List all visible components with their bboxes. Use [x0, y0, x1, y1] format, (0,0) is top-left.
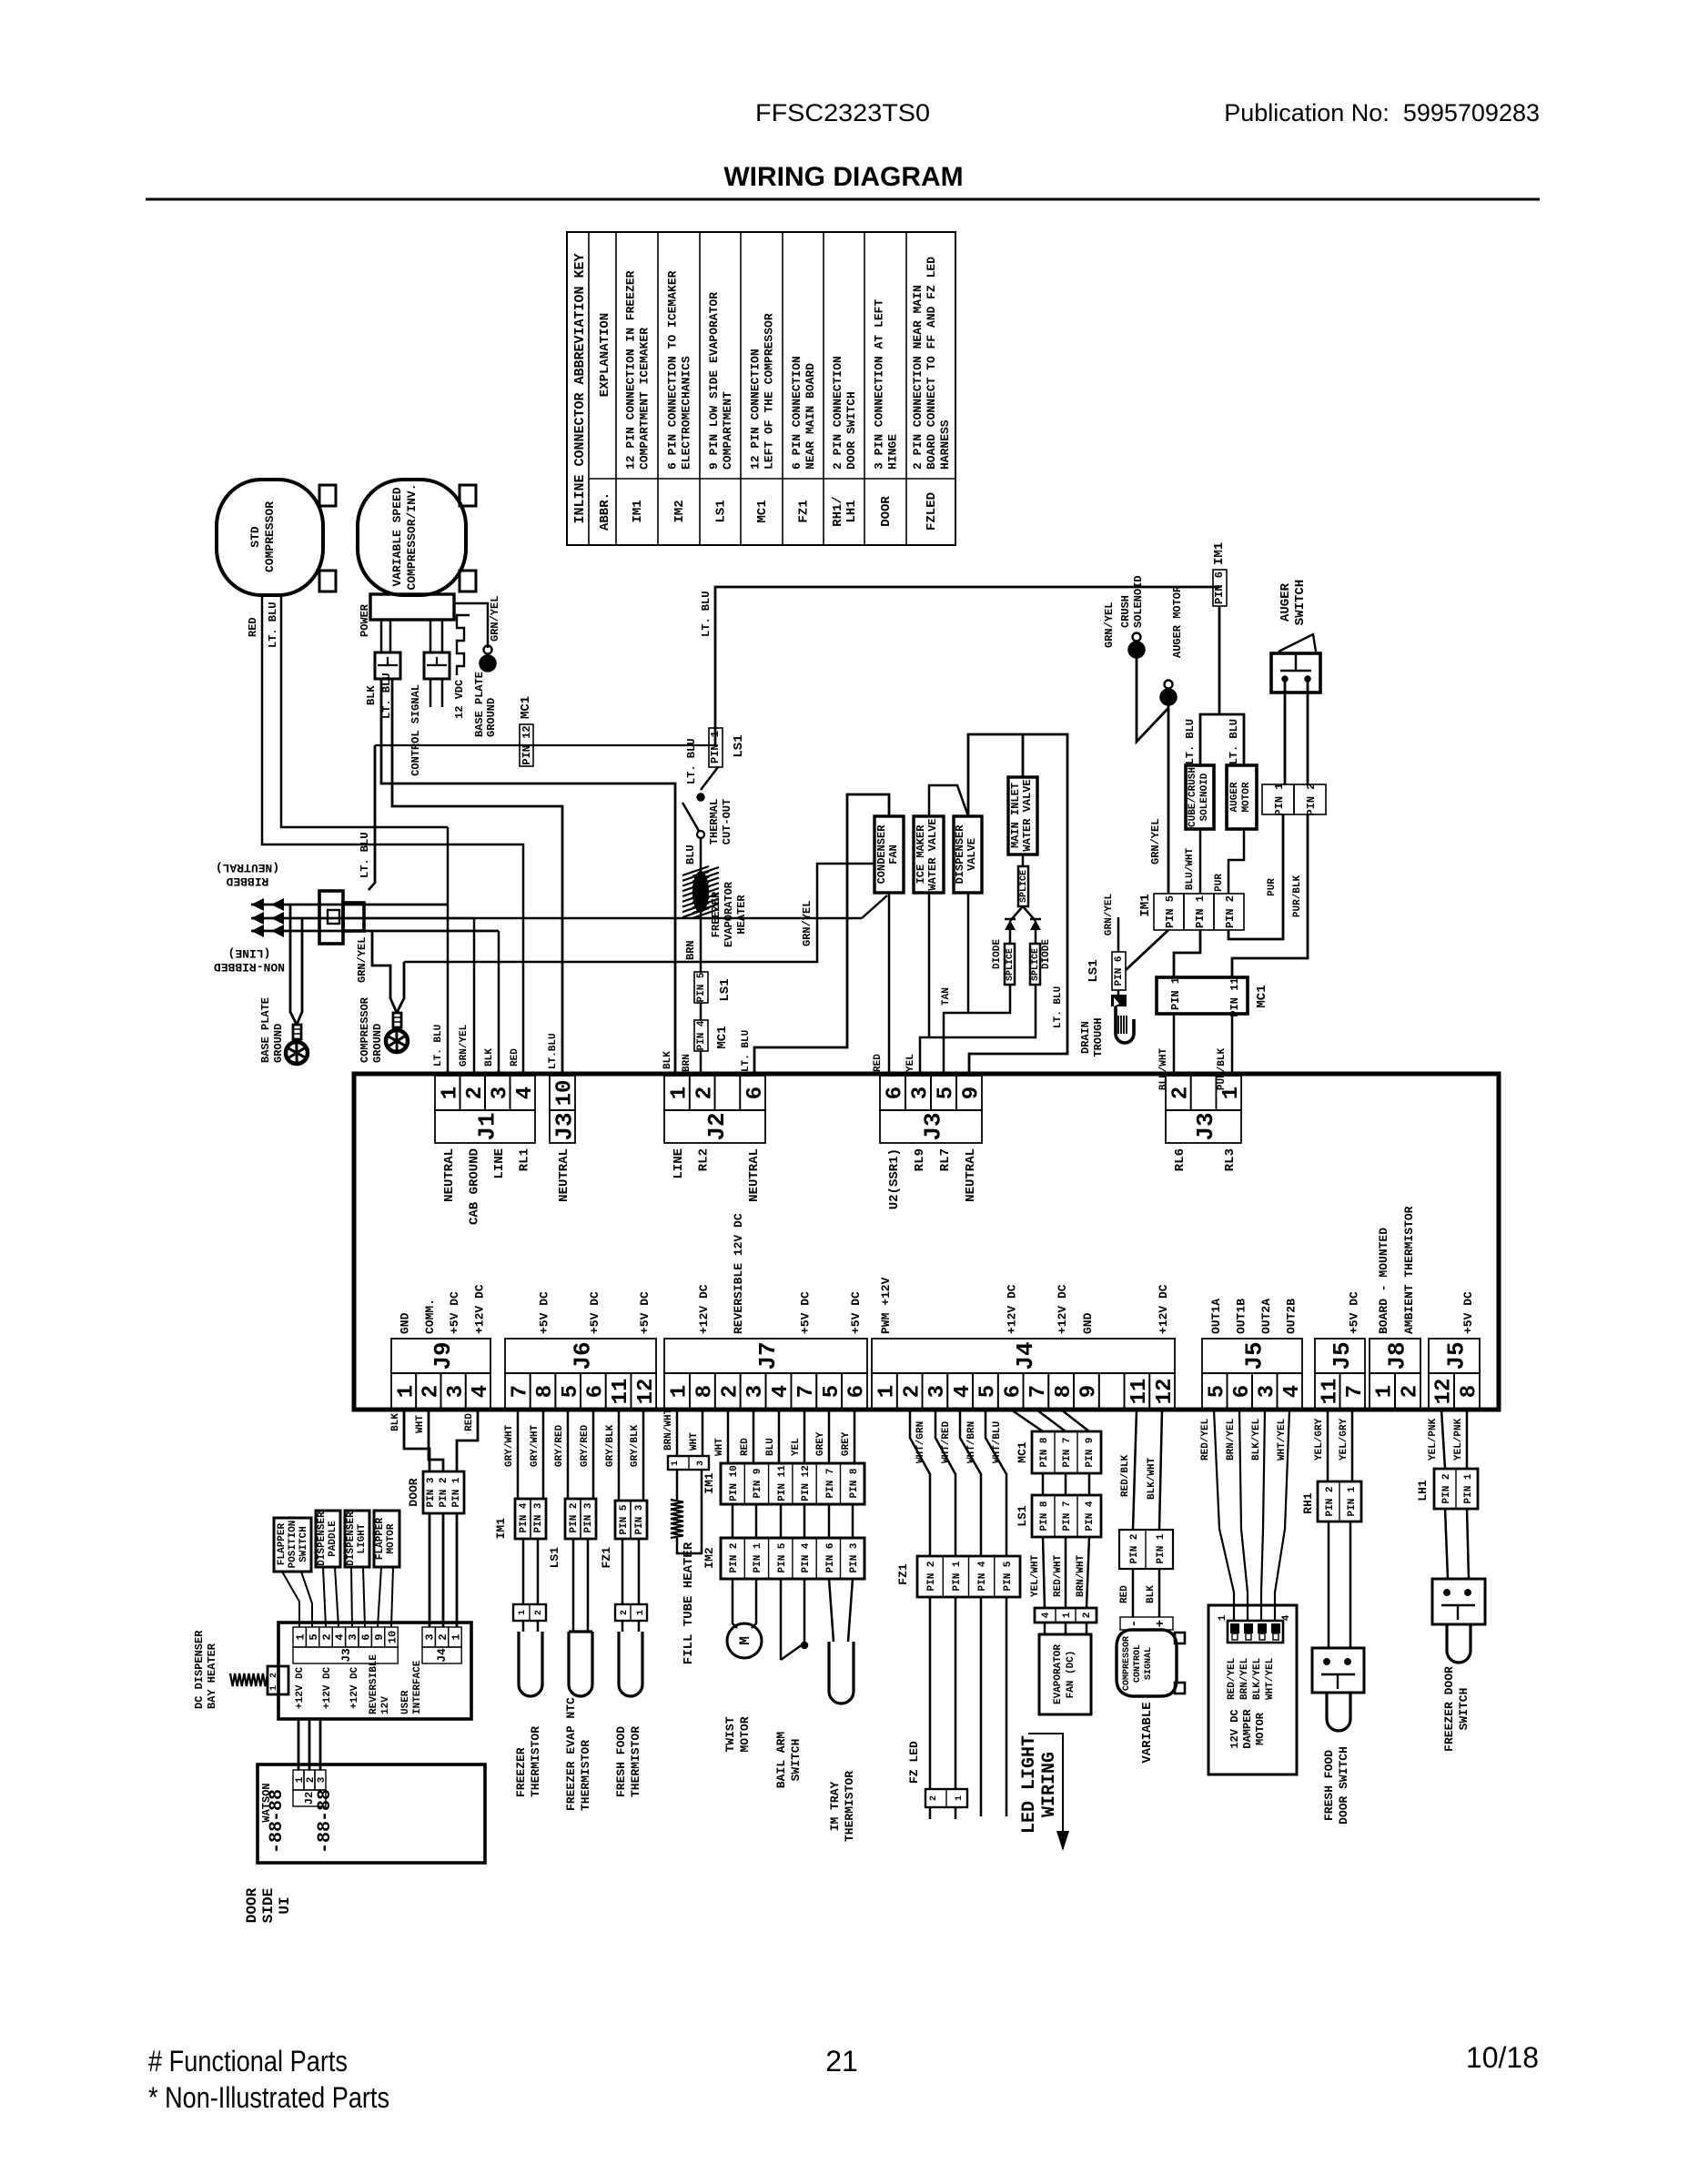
compressor control signal connector PIN2 PIN1	[1119, 1530, 1173, 1569]
svg-text:THERMISTOR: THERMISTOR	[629, 1726, 642, 1797]
freezer thermistor bulb	[522, 1621, 525, 1632]
svg-text:RED: RED	[740, 1438, 751, 1456]
svg-text:-88: -88	[267, 1821, 288, 1854]
svg-text:2: 2	[718, 1385, 743, 1398]
wires J4 to MC1 fan pins	[1011, 1410, 1043, 1431]
svg-text:BLK: BLK	[1146, 1585, 1157, 1603]
svg-text:DC DISPENSER: DC DISPENSER	[193, 1630, 206, 1709]
wire BLU/WHT solenoid to IM1 PIN1	[1199, 829, 1202, 894]
svg-text:BRN/WHT: BRN/WHT	[663, 1408, 674, 1451]
svg-text:FRESH FOOD: FRESH FOOD	[1322, 1750, 1336, 1821]
svg-text:YEL/PNK: YEL/PNK	[1453, 1418, 1464, 1461]
wire WHT J7-8	[702, 1410, 704, 1456]
freezer evap thermistor bulb	[572, 1539, 575, 1632]
wire neutral drop to J1-1	[447, 827, 450, 1076]
svg-text:NEUTRAL: NEUTRAL	[442, 1148, 457, 1202]
UI connector J3	[293, 1627, 306, 1647]
svg-text:VARIABLE: VARIABLE	[1140, 1702, 1155, 1763]
svg-text:PIN 1: PIN 1	[1194, 895, 1207, 928]
svg-text:TAN: TAN	[941, 987, 952, 1006]
svg-text:+12V DC: +12V DC	[1056, 1284, 1069, 1334]
svg-text:GRY/RED: GRY/RED	[554, 1424, 565, 1467]
svg-text:MC1: MC1	[1255, 985, 1269, 1007]
svg-text:8: 8	[533, 1385, 558, 1398]
svg-text:2: 2	[463, 1087, 488, 1099]
door side UI box	[258, 1764, 485, 1863]
wires RED BLK to compressor control	[1132, 1569, 1135, 1617]
compressor ground stems	[372, 931, 397, 1013]
plug ground prong wire	[251, 917, 474, 920]
svg-text:+12V DC: +12V DC	[697, 1284, 711, 1334]
svg-text:RED: RED	[1119, 1585, 1130, 1603]
variable speed compressor terminal blocks	[460, 485, 476, 506]
svg-text:GRY/BLK: GRY/BLK	[605, 1424, 616, 1467]
svg-text:PIN 1: PIN 1	[1273, 783, 1286, 815]
svg-text:PIN 6: PIN 6	[825, 1542, 836, 1572]
svg-text:DISPENSER: DISPENSER	[317, 1512, 328, 1566]
svg-text:FREEZER: FREEZER	[514, 1747, 528, 1797]
svg-text:WHT/GRN: WHT/GRN	[915, 1421, 926, 1463]
svg-text:PIN 7: PIN 7	[1062, 1437, 1073, 1467]
svg-text:-: -	[1127, 1620, 1142, 1627]
svg-text:OUT1A: OUT1A	[1209, 1299, 1223, 1334]
svg-text:GREY: GREY	[815, 1431, 826, 1456]
svg-text:USER: USER	[400, 1690, 411, 1714]
svg-text:LS1: LS1	[732, 734, 746, 757]
svg-text:RH1/: RH1/	[831, 496, 845, 527]
splice below main inlet valve	[1022, 854, 1025, 866]
svg-text:SOLENOID: SOLENOID	[1199, 773, 1210, 821]
svg-text:2: 2	[620, 1610, 630, 1615]
svg-text:INLINE CONNECTOR ABBREVIATION: INLINE CONNECTOR ABBREVIATION KEY	[572, 253, 588, 523]
svg-text:TWIST: TWIST	[723, 1716, 737, 1752]
svg-text:ABBR.: ABBR.	[598, 492, 612, 531]
dispenser paddle box	[316, 1511, 340, 1567]
crush solenoid ground terminal	[1133, 633, 1141, 642]
svg-text:J7: J7	[754, 1341, 782, 1370]
wire ground drop to J1-2	[473, 918, 476, 1076]
svg-text:WIRING DIAGRAM: WIRING DIAGRAM	[723, 162, 963, 192]
ice maker valve top wire	[929, 785, 968, 816]
svg-text:GRN/YEL: GRN/YEL	[489, 596, 501, 642]
thermal cut-out switch	[697, 794, 704, 801]
svg-text:PIN 9: PIN 9	[753, 1468, 763, 1498]
svg-text:EVAPORATOR: EVAPORATOR	[723, 881, 735, 947]
svg-text:1: 1	[668, 1087, 692, 1099]
svg-text:AUGER: AUGER	[1279, 582, 1293, 622]
svg-text:GND: GND	[1081, 1312, 1095, 1334]
svg-text:+5V DC: +5V DC	[1347, 1291, 1360, 1334]
wires FZ1 LED light harness	[980, 1597, 983, 1816]
svg-text:EVAPORATOR: EVAPORATOR	[1053, 1644, 1064, 1704]
connector J5 OUT	[1202, 1339, 1302, 1373]
svg-text:SWITCH: SWITCH	[298, 1526, 309, 1562]
IM tray thermistor	[829, 1579, 834, 1642]
svg-text:PIN 1: PIN 1	[451, 1477, 462, 1507]
svg-text:BRN/YEL: BRN/YEL	[1239, 1657, 1250, 1700]
auger motor box	[1227, 765, 1257, 829]
svg-text:-88: -88	[267, 1789, 288, 1822]
svg-text:FLAPPER: FLAPPER	[375, 1518, 386, 1561]
inverter control pin leads	[430, 620, 432, 652]
wire PUR IM1 PIN2 to auger switch PIN1	[1228, 814, 1283, 939]
svg-text:LT. BLU: LT. BLU	[359, 833, 371, 878]
svg-text:4: 4	[334, 1633, 347, 1640]
svg-text:1: 1	[636, 1610, 646, 1615]
svg-text:1: 1	[450, 1633, 462, 1640]
CONTROL SIGNAL connector	[424, 652, 450, 679]
svg-text:5: 5	[935, 1087, 959, 1099]
svg-text:YEL: YEL	[905, 1054, 916, 1072]
dispenser light box	[345, 1511, 369, 1567]
svg-text:OUT2B: OUT2B	[1284, 1299, 1298, 1334]
svg-text:BLK/WHT: BLK/WHT	[1147, 1457, 1157, 1500]
svg-text:BASE PLATE: BASE PLATE	[259, 997, 272, 1063]
svg-text:PIN 1: PIN 1	[709, 731, 722, 763]
svg-text:YEL/GRY: YEL/GRY	[1339, 1418, 1349, 1461]
svg-text:5: 5	[1205, 1385, 1229, 1398]
svg-text:COMPRESSOR: COMPRESSOR	[1122, 1636, 1132, 1691]
svg-text:LT. BLU: LT. BLU	[741, 1030, 752, 1072]
svg-text:3: 3	[696, 1461, 706, 1466]
svg-text:BLU: BLU	[765, 1438, 776, 1456]
svg-text:BRN/WHT: BRN/WHT	[1076, 1554, 1087, 1597]
svg-text:LS1: LS1	[1087, 959, 1101, 982]
svg-text:PIN 4: PIN 4	[696, 1020, 707, 1050]
svg-text:9: 9	[1077, 1385, 1102, 1398]
svg-text:RL6: RL6	[1173, 1148, 1188, 1171]
svg-text:COMPARTMENT ICEMAKER: COMPARTMENT ICEMAKER	[638, 328, 652, 470]
svg-text:BRN: BRN	[682, 1054, 692, 1072]
svg-text:WHT/RED: WHT/RED	[941, 1421, 952, 1463]
svg-text:J3: J3	[551, 1112, 578, 1140]
connector J5 (11 7)	[1315, 1339, 1365, 1373]
connector J6	[505, 1339, 656, 1373]
svg-text:ELECTROMECHANICS: ELECTROMECHANICS	[680, 356, 693, 470]
svg-text:4: 4	[769, 1385, 793, 1398]
svg-text:NON-RIBBED: NON-RIBBED	[214, 960, 285, 974]
freezer thermistor leads	[522, 1539, 525, 1604]
svg-text:PADDLE: PADDLE	[328, 1521, 339, 1557]
svg-text:+5V DC: +5V DC	[638, 1291, 652, 1334]
svg-text:LT. BLU: LT. BLU	[1184, 719, 1197, 764]
flapper motor box	[374, 1511, 399, 1567]
condenser fan box	[874, 816, 904, 893]
svg-text:BLU/WHT: BLU/WHT	[1185, 848, 1196, 891]
wire LT. BLU LS1 PIN1 to thermal cutout	[701, 767, 718, 790]
svg-text:VALVE: VALVE	[965, 838, 978, 871]
svg-text:J3: J3	[339, 1648, 353, 1663]
svg-text:DOOR: DOOR	[879, 496, 894, 527]
svg-text:12V: 12V	[380, 1696, 391, 1714]
connector J3 (SSR)	[880, 1076, 905, 1110]
svg-text:+5V DC: +5V DC	[588, 1291, 601, 1334]
svg-text:BOARD CONNECT TO FF AND FZ LED: BOARD CONNECT TO FF AND FZ LED	[925, 257, 938, 470]
control signal stubs	[430, 679, 432, 707]
svg-text:WHT: WHT	[714, 1438, 725, 1456]
neutral bus rectangle right	[968, 734, 1067, 1076]
wire GRN/YEL plug ground bus to fan	[862, 895, 887, 918]
svg-text:EXPLANATION: EXPLANATION	[598, 313, 612, 397]
svg-text:RL3: RL3	[1223, 1148, 1238, 1171]
svg-text:FRESH FOOD: FRESH FOOD	[614, 1726, 628, 1797]
svg-text:BLK: BLK	[662, 1051, 673, 1069]
svg-text:STD: STD	[248, 526, 262, 548]
svg-text:LT. BLU: LT. BLU	[1228, 719, 1240, 764]
svg-text:FLAPPER: FLAPPER	[277, 1523, 288, 1566]
bail arm switch	[780, 1579, 783, 1660]
auger motor ground terminal	[1165, 681, 1173, 689]
svg-text:LIGHT: LIGHT	[357, 1523, 368, 1553]
svg-text:6 PIN CONNECTION: 6 PIN CONNECTION	[790, 356, 804, 470]
svg-text:1: 1	[438, 1087, 462, 1099]
evaporator fan connector 4 1 2	[1035, 1608, 1097, 1623]
svg-text:SPLICE: SPLICE	[1006, 948, 1016, 981]
svg-text:GRY/WHT: GRY/WHT	[530, 1424, 541, 1467]
svg-text:-88: -88	[315, 1821, 336, 1854]
svg-text:COMPRESSOR/INV.: COMPRESSOR/INV.	[405, 483, 419, 590]
svg-text:4: 4	[1041, 1612, 1052, 1618]
svg-text:LS1: LS1	[714, 500, 729, 522]
wires J5 to RH1	[1327, 1410, 1329, 1481]
UI J2 connector	[293, 1770, 304, 1790]
svg-text:2: 2	[320, 1633, 333, 1640]
svg-text:PIN 1: PIN 1	[1347, 1486, 1358, 1516]
svg-text:FZ1: FZ1	[600, 1547, 613, 1569]
DC dispenser bay heater	[230, 1673, 268, 1686]
svg-text:3: 3	[743, 1385, 768, 1398]
svg-text:PWM +12V: PWM +12V	[879, 1277, 893, 1334]
svg-text:COMM.: COMM.	[423, 1299, 437, 1334]
svg-text:4: 4	[1281, 1614, 1292, 1621]
svg-text:1: 1	[394, 1385, 419, 1398]
svg-text:PIN 7: PIN 7	[825, 1468, 836, 1498]
wires LH1 to freezer door switch	[1445, 1509, 1448, 1579]
svg-text:THERMISTOR: THERMISTOR	[579, 1740, 592, 1811]
abbreviation key table frame	[567, 232, 955, 545]
svg-text:DIODE: DIODE	[1041, 939, 1052, 969]
svg-text:WHT/BLU: WHT/BLU	[992, 1421, 1003, 1463]
svg-text:IM1: IM1	[1212, 542, 1227, 565]
svg-text:PIN 4: PIN 4	[1085, 1501, 1096, 1531]
svg-text:CONTROL SIGNAL: CONTROL SIGNAL	[409, 684, 422, 776]
svg-text:3: 3	[347, 1633, 359, 1640]
connector J9	[391, 1339, 490, 1373]
svg-text:12 VDC: 12 VDC	[453, 680, 466, 719]
MC1 PIN 4 inline pin	[694, 1020, 708, 1051]
svg-text:LT. BLU: LT. BLU	[1053, 986, 1064, 1028]
svg-text:PIN 2: PIN 2	[1325, 1486, 1336, 1516]
svg-text:PUR: PUR	[1267, 878, 1278, 896]
svg-text:(LINE): (LINE)	[228, 946, 271, 960]
svg-text:PIN 1: PIN 1	[1463, 1473, 1474, 1503]
connector J1	[435, 1076, 460, 1110]
main board outline	[354, 1074, 1499, 1410]
PIN 12 MC1 inline pin	[520, 724, 533, 766]
svg-text:RED/YEL: RED/YEL	[1200, 1418, 1211, 1461]
wire PUR/BLK auger switch PIN2 to MC1 PIN11	[1232, 814, 1308, 977]
wire PUR/BLK MC1 to board	[1231, 1014, 1234, 1076]
svg-text:INTERFACE: INTERFACE	[412, 1660, 423, 1714]
svg-text:CRUSH: CRUSH	[1119, 595, 1132, 628]
svg-text:1: 1	[518, 1610, 528, 1615]
svg-text:7: 7	[1343, 1385, 1368, 1398]
svg-text:+: +	[1154, 1620, 1168, 1627]
freezer door switch bulb	[1447, 1624, 1471, 1663]
wire GRN/YEL ground bus upper	[404, 864, 874, 962]
cube/crush solenoid box	[1186, 765, 1214, 829]
svg-text:CONDENSER: CONDENSER	[875, 824, 888, 885]
UI connector J4	[422, 1627, 435, 1647]
svg-text:LS1: LS1	[718, 978, 733, 1001]
svg-text:PIN 4: PIN 4	[977, 1561, 988, 1591]
svg-text:MC1: MC1	[715, 1026, 730, 1048]
svg-text:12V DC: 12V DC	[1228, 1709, 1241, 1748]
svg-text:IM2: IM2	[702, 1547, 716, 1569]
svg-text:FZ1: FZ1	[896, 1563, 910, 1585]
svg-text:2: 2	[1168, 1087, 1193, 1099]
STD compressor body	[217, 480, 323, 595]
FZ LED stubs	[929, 1807, 932, 1819]
wires J5 to damper motor	[1214, 1410, 1234, 1621]
dispenser valve box	[954, 816, 982, 893]
svg-text:GRN/YEL: GRN/YEL	[1103, 602, 1116, 648]
svg-text:GROUND: GROUND	[485, 698, 498, 737]
svg-text:1: 1	[955, 1795, 965, 1801]
svg-text:RED/BLK: RED/BLK	[1120, 1454, 1131, 1497]
svg-text:GND: GND	[399, 1312, 412, 1334]
wires UI to door side UI	[298, 1719, 300, 1770]
svg-text:2 PIN CONNECTION NEAR MAIN: 2 PIN CONNECTION NEAR MAIN	[911, 285, 925, 470]
svg-text:DOOR SWITCH: DOOR SWITCH	[1337, 1746, 1350, 1825]
svg-text:+5V DC: +5V DC	[448, 1291, 461, 1334]
svg-text:IM1: IM1	[1138, 894, 1153, 916]
svg-text:FREEZER DOOR: FREEZER DOOR	[1442, 1666, 1456, 1752]
svg-text:4: 4	[1280, 1385, 1305, 1398]
connector J7	[664, 1339, 867, 1373]
svg-text:RED: RED	[510, 1048, 521, 1067]
IM1 PIN 6 inline pin	[1213, 570, 1227, 606]
svg-text:IM1: IM1	[494, 1518, 508, 1540]
svg-text:2: 2	[269, 1673, 279, 1678]
connector J3 (RL6 RL3)	[1166, 1076, 1191, 1110]
wire BLK J9-1 to DOOR PIN3	[404, 1410, 430, 1471]
LS1 PIN 6 inline pin	[1112, 952, 1126, 990]
svg-text:CAB GROUND: CAB GROUND	[467, 1148, 481, 1225]
svg-text:LH1: LH1	[844, 500, 859, 522]
svg-text:DAMPER: DAMPER	[1241, 1709, 1254, 1749]
svg-text:WATER VALVE: WATER VALVE	[1021, 779, 1034, 851]
svg-text:SWITCH: SWITCH	[1293, 580, 1308, 625]
svg-text:PIN 9: PIN 9	[1085, 1437, 1096, 1467]
fill tube heater connector 1 3	[668, 1456, 709, 1470]
svg-text:BLK/YEL: BLK/YEL	[1252, 1657, 1263, 1700]
svg-text:PIN 5: PIN 5	[777, 1542, 788, 1572]
svg-text:YEL: YEL	[791, 1438, 802, 1456]
inverter box	[370, 594, 454, 620]
svg-text:OUT1B: OUT1B	[1234, 1299, 1248, 1334]
auger motor ground wire GRN/YEL to IM1 PIN5	[1167, 705, 1170, 894]
freezer thermistor connector 1 2	[513, 1604, 546, 1621]
svg-text:5: 5	[308, 1633, 320, 1640]
svg-text:DOOR: DOOR	[244, 1887, 260, 1923]
wire BLU/WHT MC1 to board	[1173, 1014, 1176, 1076]
svg-text:RED: RED	[873, 1054, 884, 1072]
svg-text:GRN/YEL: GRN/YEL	[356, 937, 369, 983]
svg-text:PIN 1: PIN 1	[1169, 977, 1182, 1010]
svg-text:J9: J9	[430, 1341, 457, 1370]
base plate ground ring	[293, 1025, 301, 1039]
power plug body	[319, 891, 343, 944]
auger switch pin box PIN1 PIN2	[1262, 784, 1294, 814]
svg-text:11: 11	[1127, 1379, 1152, 1405]
svg-text:1: 1	[1219, 1087, 1244, 1099]
svg-text:WHT/BRN: WHT/BRN	[966, 1421, 977, 1463]
svg-text:7: 7	[794, 1385, 819, 1398]
svg-text:MC1: MC1	[519, 696, 533, 719]
svg-text:21: 21	[825, 2045, 858, 2078]
svg-text:PIN 12: PIN 12	[521, 725, 533, 764]
svg-text:CUT-OUT: CUT-OUT	[721, 799, 733, 844]
svg-text:-88: -88	[315, 1789, 336, 1822]
svg-text:2: 2	[1399, 1385, 1423, 1398]
svg-text:PUR/BLK: PUR/BLK	[1292, 875, 1303, 918]
freezer evaporator heater element	[682, 866, 709, 875]
svg-text:2 PIN CONNECTION: 2 PIN CONNECTION	[831, 356, 844, 470]
wire RED J9-4 to DOOR PIN1	[457, 1410, 478, 1471]
svg-text:PIN 2: PIN 2	[1224, 895, 1237, 928]
STD compressor terminal blocks	[319, 485, 336, 506]
svg-text:VARIABLE SPEED: VARIABLE SPEED	[390, 487, 404, 586]
svg-text:2: 2	[692, 1087, 717, 1099]
svg-text:LT. BLU: LT. BLU	[267, 602, 279, 648]
svg-text:LT.BLU: LT.BLU	[548, 1033, 559, 1069]
svg-text:1: 1	[875, 1385, 900, 1398]
svg-text:1: 1	[1062, 1612, 1073, 1618]
svg-text:PIN 3: PIN 3	[426, 1477, 437, 1507]
fill tube heater loop	[676, 1470, 679, 1500]
svg-text:1: 1	[1373, 1385, 1398, 1398]
wire YEL ice maker valve to J3-3	[928, 893, 931, 1037]
svg-text:GRN/YEL: GRN/YEL	[801, 901, 814, 946]
connector J5 (12 8)	[1429, 1339, 1480, 1373]
svg-text:PIN 11: PIN 11	[777, 1465, 788, 1501]
svg-text:J5: J5	[1240, 1341, 1268, 1370]
svg-text:BAIL ARM: BAIL ARM	[774, 1732, 788, 1789]
svg-text:SWITCH: SWITCH	[1457, 1688, 1471, 1731]
svg-text:9: 9	[960, 1087, 985, 1099]
wire line drop to J1-3	[498, 931, 500, 1076]
svg-text:1: 1	[295, 1633, 308, 1640]
svg-text:6: 6	[884, 1087, 908, 1099]
svg-text:+12V DC: +12V DC	[1157, 1284, 1170, 1334]
svg-text:+5V DC: +5V DC	[849, 1291, 863, 1334]
svg-text:AMBIENT THERMISTOR: AMBIENT THERMISTOR	[1402, 1206, 1416, 1334]
svg-text:2: 2	[929, 1795, 939, 1801]
crush solenoid ground wire	[1137, 658, 1168, 742]
svg-text:UI: UI	[277, 1896, 293, 1914]
svg-text:M: M	[737, 1636, 753, 1645]
svg-text:PIN 4: PIN 4	[519, 1502, 530, 1532]
svg-text:RED: RED	[247, 617, 259, 637]
svg-text:7: 7	[508, 1385, 532, 1398]
svg-text:J3: J3	[1192, 1112, 1219, 1140]
svg-text:3: 3	[1255, 1385, 1279, 1398]
svg-text:J5: J5	[1329, 1341, 1356, 1370]
svg-text:DISPENSER: DISPENSER	[954, 824, 966, 885]
wires J4 to FZ1 connector	[910, 1410, 930, 1556]
svg-text:12 PIN CONNECTION IN FREEZER: 12 PIN CONNECTION IN FREEZER	[624, 270, 638, 470]
